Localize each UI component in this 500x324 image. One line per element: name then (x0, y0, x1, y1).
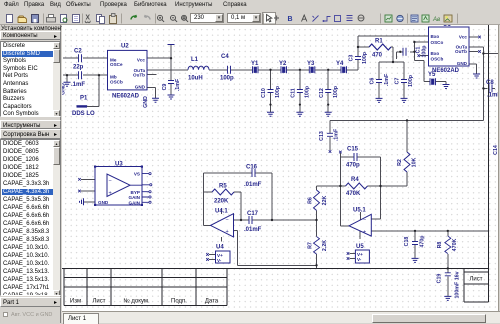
svg-text:.1mF: .1mF (334, 128, 340, 141)
svg-text:C9: C9 (162, 84, 168, 91)
svg-text:GND: GND (135, 85, 146, 90)
svg-text:2.2K: 2.2K (322, 240, 328, 251)
svg-text:Y2: Y2 (279, 61, 287, 67)
svg-text:U2: U2 (121, 44, 129, 50)
svg-text:100p: 100p (408, 74, 414, 87)
svg-text:470p: 470p (346, 163, 360, 169)
svg-text:NE602AD: NE602AD (112, 94, 140, 100)
svg-text:−: − (226, 218, 229, 224)
svg-text:C6: C6 (370, 78, 376, 85)
svg-text:10K: 10K (412, 157, 418, 167)
svg-text:C18: C18 (404, 237, 410, 247)
svg-text:Лист: Лист (92, 299, 105, 305)
svg-text:GAIN: GAIN (129, 200, 141, 205)
svg-text:R7: R7 (308, 242, 314, 249)
svg-text:100p: 100p (362, 51, 368, 64)
svg-text:22K: 22K (322, 195, 328, 205)
svg-text:OSCb: OSCb (110, 80, 123, 85)
svg-text:C16: C16 (246, 164, 258, 170)
svg-text:Y4: Y4 (336, 61, 344, 67)
svg-text:.1mF: .1mF (71, 82, 85, 88)
svg-text:R5: R5 (219, 184, 227, 190)
svg-text:OuTb: OuTb (455, 49, 467, 54)
svg-text:OSCb: OSCb (431, 56, 444, 61)
svg-text:DDS LO: DDS LO (72, 111, 95, 117)
svg-text:C11: C11 (291, 88, 297, 97)
svg-text:R8: R8 (437, 242, 443, 249)
svg-text:100p: 100p (220, 76, 234, 82)
svg-text:+: + (363, 230, 366, 236)
svg-text:.1mF: .1mF (175, 78, 181, 91)
svg-text:L1: L1 (191, 57, 199, 63)
svg-text:100p: 100p (305, 85, 311, 98)
svg-text:22p: 22p (73, 65, 84, 71)
svg-text:U1: U1 (443, 25, 451, 28)
svg-text:В: В (288, 16, 293, 23)
svg-text:C12: C12 (319, 88, 325, 98)
svg-text:NE602AD: NE602AD (432, 68, 460, 74)
svg-text:.1mF: .1mF (384, 73, 390, 86)
svg-text:Y3: Y3 (307, 61, 315, 67)
svg-text:.1mF: .1mF (487, 93, 498, 99)
svg-text:C7: C7 (395, 78, 401, 85)
svg-text:C8: C8 (486, 80, 494, 86)
svg-text:100p: 100p (275, 85, 281, 98)
svg-text:Bxo: Bxo (431, 34, 440, 39)
svg-text:C2: C2 (74, 49, 82, 55)
svg-text:P1: P1 (80, 96, 88, 102)
svg-text:+: + (226, 229, 229, 235)
svg-text:BYP: BYP (131, 190, 140, 195)
svg-text:C3: C3 (349, 55, 355, 62)
svg-text:Изм: Изм (70, 299, 81, 305)
svg-text:OuTb: OuTb (133, 73, 145, 78)
svg-text:GND: GND (457, 61, 468, 66)
svg-text:U5.1: U5.1 (353, 208, 366, 214)
svg-text:GND: GND (98, 200, 109, 205)
svg-text:Vcc: Vcc (137, 57, 146, 62)
svg-text:470K: 470K (452, 238, 458, 251)
svg-text:OSCo: OSCo (431, 40, 444, 45)
svg-text:Vcc: Vcc (459, 35, 468, 40)
svg-text:U4: U4 (216, 245, 224, 251)
svg-text:Y1: Y1 (251, 61, 259, 67)
svg-text:100p: 100p (422, 45, 428, 58)
svg-text:.01mF: .01mF (244, 227, 262, 233)
svg-text:470: 470 (372, 53, 383, 59)
svg-text:220K: 220K (214, 199, 229, 205)
svg-text:10uH: 10uH (188, 76, 203, 82)
svg-text:Лист: Лист (469, 277, 482, 283)
svg-text:470p: 470p (420, 235, 426, 248)
svg-text:№ докум.: № докум. (123, 298, 150, 305)
svg-text:C13: C13 (319, 131, 325, 141)
svg-text:470K: 470K (346, 191, 361, 197)
svg-text:+: + (109, 191, 112, 197)
svg-text:C19: C19 (437, 274, 443, 284)
svg-text:R1: R1 (375, 39, 383, 45)
svg-text:U3: U3 (115, 162, 123, 168)
svg-text:C10: C10 (261, 88, 267, 98)
svg-text:C15: C15 (347, 147, 359, 153)
svg-text:Aв: Aв (432, 17, 440, 23)
svg-text:100p: 100p (333, 85, 339, 98)
svg-text:VS: VS (134, 172, 140, 177)
svg-text:U5: U5 (356, 244, 364, 250)
svg-text:R6: R6 (308, 197, 314, 204)
svg-text:R4: R4 (351, 177, 359, 183)
svg-text:OSCe: OSCe (110, 62, 123, 67)
svg-text:U4.1: U4.1 (215, 209, 228, 215)
svg-text:.01mF: .01mF (244, 182, 262, 188)
svg-text:V-: V- (217, 258, 222, 263)
svg-text:V-: V- (357, 257, 362, 262)
svg-text:GND: GND (62, 83, 67, 95)
svg-text:Mb: Mb (110, 74, 117, 79)
svg-text:Bxo: Bxo (431, 51, 440, 56)
svg-text:GND: GND (143, 96, 149, 108)
svg-text:Подп.: Подп. (171, 299, 187, 305)
svg-text:Дата: Дата (205, 299, 219, 305)
svg-text:−: − (363, 218, 366, 224)
svg-text:100mF 16v: 100mF 16v (455, 271, 461, 298)
svg-text:R2: R2 (397, 159, 403, 166)
svg-text:−: − (109, 178, 112, 184)
svg-text:Y5: Y5 (428, 72, 436, 78)
svg-text:C4: C4 (221, 54, 229, 60)
svg-text:C17: C17 (247, 211, 259, 217)
